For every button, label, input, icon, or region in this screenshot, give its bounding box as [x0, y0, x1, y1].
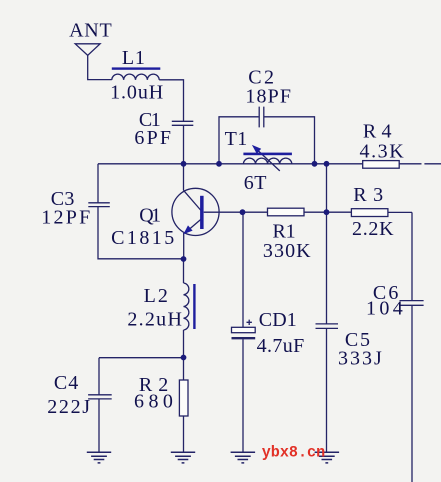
svg-text:222J: 222J — [47, 396, 90, 418]
svg-text:2.2uH: 2.2uH — [127, 309, 181, 331]
svg-text:C1815: C1815 — [111, 227, 174, 249]
svg-text:6PF: 6PF — [134, 127, 171, 149]
svg-text:ANT: ANT — [69, 20, 112, 42]
svg-text:CD1: CD1 — [259, 309, 297, 331]
svg-text:1.0uH: 1.0uH — [110, 82, 163, 104]
svg-text:4.7uF: 4.7uF — [257, 335, 305, 357]
svg-text:2.2K: 2.2K — [352, 218, 394, 240]
svg-text:T1: T1 — [225, 128, 248, 150]
svg-text:330K: 330K — [263, 240, 311, 262]
svg-text:18PF: 18PF — [245, 86, 291, 108]
svg-text:6T: 6T — [244, 172, 267, 194]
svg-text:680: 680 — [134, 390, 173, 412]
svg-text:12PF: 12PF — [41, 207, 90, 229]
svg-text:Q1: Q1 — [139, 205, 161, 227]
svg-text:4.3K: 4.3K — [360, 140, 405, 162]
svg-text:R1: R1 — [273, 220, 296, 242]
svg-text:ybx8.cn: ybx8.cn — [262, 444, 326, 462]
svg-text:333J: 333J — [338, 348, 382, 370]
svg-text:C4: C4 — [54, 372, 78, 394]
svg-text:L2: L2 — [144, 285, 168, 307]
svg-text:L1: L1 — [122, 47, 145, 69]
svg-text:104: 104 — [366, 298, 403, 320]
